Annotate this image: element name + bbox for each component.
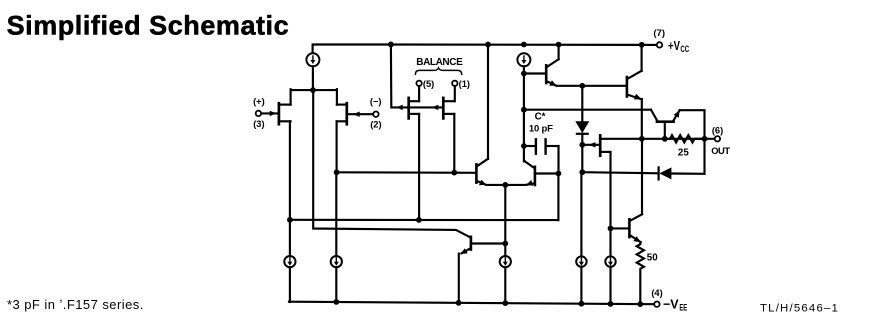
junction dot rail/R50 <box>637 301 643 307</box>
wire I2 to Q3 collector (y109.7) <box>524 109 651 111</box>
wire J3 drain <box>418 114 420 220</box>
junction dot tail/Q6 base <box>502 241 508 247</box>
junction dot rail/Q1 collector <box>556 42 562 48</box>
wire first stage to Q5 base (y220) <box>290 219 559 221</box>
label (5) <box>423 79 434 89</box>
wire J1 source riser <box>290 89 292 104</box>
svg-text:10 pF: 10 pF <box>529 124 553 135</box>
wire D1 down to I6 <box>580 172 582 256</box>
junction dot J4 drain/y172.6 <box>451 170 457 176</box>
junction dot rail/I6 <box>579 301 585 307</box>
doc number text <box>760 303 839 315</box>
wire Q1 emitter to Q2 base (y85.8) <box>557 85 627 87</box>
wire -Vee bottom rail <box>289 302 654 305</box>
label -Vee <box>663 297 687 313</box>
wire I3 top <box>289 220 291 256</box>
diode D1 <box>575 86 589 172</box>
svg-text:(3): (3) <box>253 119 264 129</box>
svg-text:TL/H/5646–1: TL/H/5646–1 <box>760 303 839 315</box>
svg-text:(5): (5) <box>423 79 434 89</box>
diode D2 <box>582 139 704 180</box>
junction dot D1/J5 gate <box>579 142 585 148</box>
wire Q1 base lead <box>524 72 546 74</box>
junction dot I2/Q1 base <box>521 71 527 77</box>
footnote text <box>7 297 144 312</box>
terminal (+) input pin 3 <box>256 111 261 116</box>
junction dot I2/limit line <box>521 107 527 113</box>
wire input pair source rail <box>291 89 337 91</box>
svg-text:50: 50 <box>647 252 658 263</box>
terminal -Vee pin 4 <box>654 302 659 307</box>
wire y220 riser to Q5 base node <box>557 174 559 221</box>
transistor J5 (output JFET) <box>582 135 610 155</box>
label (2) <box>370 120 381 130</box>
terminal balance pin 5 <box>416 81 421 86</box>
terminal OUT pin 6 <box>715 136 720 141</box>
wire Q6 emitter down <box>458 254 460 303</box>
transistor J2 (&#8722; input JFET) <box>337 103 373 124</box>
transistor Q4 (2nd stage left NPN) <box>476 159 488 185</box>
gate arrow J3 <box>396 105 403 110</box>
svg-text:(−): (−) <box>370 97 382 107</box>
junction dot J3 drain/y220 <box>416 217 422 223</box>
resistor R1 25 <box>666 135 705 142</box>
current source I3 <box>284 256 295 267</box>
junction dot out/R25 right <box>702 136 708 142</box>
transistor Q2 (output NPN) <box>627 71 642 100</box>
junction dot emitters <box>502 182 508 188</box>
svg-text:EE: EE <box>679 302 687 312</box>
junction dot rail/I4 <box>333 299 339 305</box>
wire I4 bottom <box>335 267 337 302</box>
wire Q7 collector riser <box>641 139 643 214</box>
junction dot rail/I7 <box>608 301 614 307</box>
current source I6 <box>576 256 586 266</box>
label 25 <box>678 147 689 158</box>
wire I2 column <box>524 66 525 161</box>
svg-text:(+): (+) <box>253 96 265 106</box>
junction dot rail/I5 <box>502 300 508 306</box>
wire pin1 to J4 <box>454 86 456 101</box>
title text <box>7 10 290 40</box>
label (1) <box>459 79 470 89</box>
junction dot rail/I2 <box>521 42 527 48</box>
transistor Q6 (clamp NPN) <box>460 237 505 254</box>
transistor J4 (balance JFET) <box>443 98 454 119</box>
gate arrow J4 <box>432 105 439 110</box>
wire Q2 emitter to output <box>641 99 643 139</box>
label +Vcc <box>668 38 689 54</box>
terminal balance pin 1 <box>452 81 457 86</box>
wire I6 bottom <box>580 267 582 304</box>
wire I5 bottom <box>504 267 506 303</box>
wire output line <box>601 138 715 140</box>
wire I3 bottom <box>289 267 291 302</box>
junction dot rail/Q2 collector <box>639 42 645 48</box>
label 50 <box>647 252 658 263</box>
wire I1 to input pair sources <box>312 66 314 90</box>
label C* <box>535 112 546 123</box>
terminal (&#8722;) input pin 2 <box>373 112 378 117</box>
svg-text:BALANCE: BALANCE <box>416 57 463 68</box>
wire J1 drain <box>289 121 291 220</box>
junction dot I2/C* lead <box>521 143 527 149</box>
junction dot rail/Q6 emitter <box>456 300 462 306</box>
wire Q4 collector riser <box>487 44 489 158</box>
svg-text:(7): (7) <box>653 28 665 39</box>
wire Q3 emitter to out node <box>680 110 705 139</box>
svg-text:+V: +V <box>668 38 680 53</box>
wire J2 drain <box>336 121 338 172</box>
terminal +Vcc pin 7 <box>657 42 662 47</box>
wire J4 drain <box>453 114 455 173</box>
junction dot out/Q2 emitter <box>639 136 645 142</box>
wire I7 bottom <box>609 267 611 304</box>
svg-text:*3 pF in ʼ.F157 series.: *3 pF in ʼ.F157 series. <box>7 297 144 312</box>
svg-text:25: 25 <box>678 147 689 158</box>
wire balance gate riser <box>391 44 443 107</box>
svg-text:C*: C* <box>535 112 546 123</box>
transistor Q5 (2nd stage right NPN) <box>525 161 559 185</box>
current source I4 <box>331 256 342 267</box>
svg-text:(6): (6) <box>712 125 723 135</box>
svg-text:CC: CC <box>680 44 689 54</box>
label (+) <box>253 96 265 106</box>
wire J2 source riser <box>336 89 338 104</box>
wire tail down <box>504 185 506 257</box>
label (&#8722;) <box>370 97 382 107</box>
junction dot y85.8/D1 <box>579 83 585 89</box>
svg-text:−V: −V <box>663 297 679 312</box>
capacitor C1 (C* 10pF) <box>524 139 559 153</box>
balance brace <box>415 68 461 74</box>
wire C* to Q5 base node <box>557 146 559 174</box>
wire I1 line down to clamp <box>313 90 470 237</box>
label (3) <box>253 119 264 129</box>
svg-text:(2): (2) <box>370 120 381 130</box>
junction dot out/Q3 base <box>662 136 668 142</box>
junction dot input sources node <box>310 87 316 93</box>
transistor Q3 (current limit NPN) <box>651 110 680 139</box>
label (4) <box>651 288 662 298</box>
wire J2 drain down to I4 <box>335 172 337 256</box>
svg-text:Simplified Schematic: Simplified Schematic <box>7 10 290 40</box>
junction dot D1/D2 <box>579 169 585 175</box>
svg-text:(4): (4) <box>651 288 662 298</box>
wire Q2 collector riser <box>641 44 643 70</box>
label BALANCE <box>416 57 463 68</box>
label 10 pF <box>529 124 553 135</box>
wire pin5 to J3 <box>418 86 420 101</box>
current source I5 <box>500 256 511 267</box>
svg-text:OUT: OUT <box>711 145 730 156</box>
wire J2 drain to Q4 base (y172.6) <box>337 171 476 174</box>
junction dot J1 drain/y220 <box>287 217 293 223</box>
junction dot J2 drain/y172.6 <box>334 169 340 175</box>
wire +Vcc top rail <box>313 44 657 53</box>
wire second stage emitters <box>486 184 526 186</box>
svg-text:(1): (1) <box>459 79 470 89</box>
transistor J1 (+ input JFET) <box>261 103 291 124</box>
current source I7 <box>605 256 615 266</box>
junction dot rail/Q4 collector <box>485 42 491 48</box>
current source I1 <box>306 53 319 66</box>
junction dot rail/balance-gate riser <box>388 42 394 48</box>
transistor J3 (balance JFET) <box>409 98 419 119</box>
junction dot Q5 base node <box>556 171 562 177</box>
wire Q1 collector riser <box>558 44 560 59</box>
transistor Q7 (lower output NPN) <box>611 214 643 242</box>
label (6) <box>712 125 723 135</box>
wire J5 drain down <box>609 152 611 257</box>
resistor R2 50 <box>637 242 644 304</box>
junction dot J5 drain/Q7 base <box>608 226 614 232</box>
transistor Q1 (bias NPN) <box>546 59 558 86</box>
label (7) <box>653 28 665 39</box>
current source I2 <box>517 53 530 66</box>
label OUT <box>711 145 730 156</box>
